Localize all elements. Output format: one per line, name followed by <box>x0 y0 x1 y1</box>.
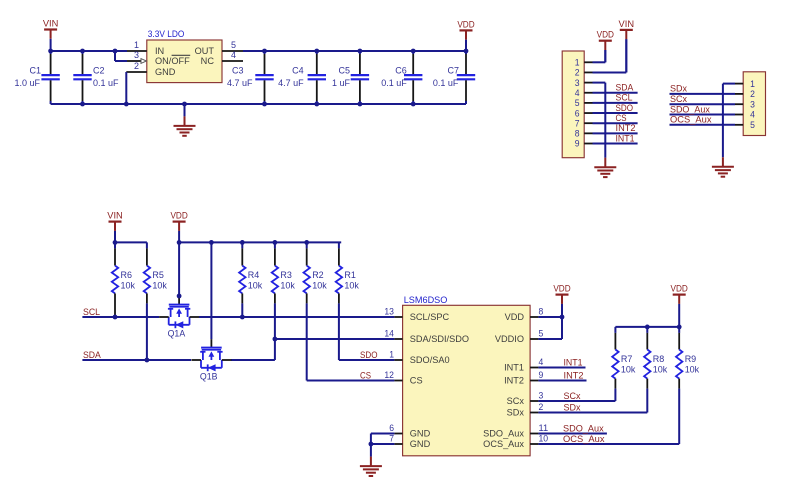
svg-text:SDO/SA0: SDO/SA0 <box>410 355 450 365</box>
svg-text:C3: C3 <box>232 66 244 76</box>
svg-text:CS: CS <box>360 371 371 381</box>
svg-text:5: 5 <box>750 120 755 131</box>
svg-text:C5: C5 <box>339 66 351 76</box>
svg-text:VDD: VDD <box>597 30 615 40</box>
svg-text:SDA/SDI/SDO: SDA/SDI/SDO <box>410 334 469 344</box>
svg-text:INT1: INT1 <box>504 363 524 373</box>
svg-text:R2: R2 <box>312 270 324 280</box>
svg-text:6: 6 <box>389 423 394 434</box>
svg-text:1: 1 <box>389 349 394 360</box>
svg-text:ON/OFF: ON/OFF <box>155 56 190 66</box>
svg-text:Q1A: Q1A <box>168 329 186 339</box>
svg-text:10k: 10k <box>344 281 359 291</box>
svg-text:VDD: VDD <box>553 284 571 294</box>
svg-text:INT2: INT2 <box>504 376 524 386</box>
svg-text:10k: 10k <box>152 281 167 291</box>
svg-text:10k: 10k <box>121 281 136 291</box>
svg-text:R7: R7 <box>621 354 633 364</box>
svg-text:GND: GND <box>410 439 431 449</box>
svg-text:SDO_Aux: SDO_Aux <box>563 424 604 434</box>
svg-text:Q1B: Q1B <box>200 372 218 382</box>
svg-text:SCx: SCx <box>670 94 687 104</box>
svg-text:C2: C2 <box>93 66 105 76</box>
svg-text:VIN: VIN <box>619 19 635 29</box>
svg-text:8: 8 <box>539 306 544 317</box>
svg-text:VDD: VDD <box>457 19 475 29</box>
svg-text:1 uF: 1 uF <box>332 78 350 88</box>
svg-text:R9: R9 <box>685 354 697 364</box>
svg-text:R8: R8 <box>653 354 665 364</box>
svg-text:OCS_Aux: OCS_Aux <box>563 434 605 444</box>
svg-text:VDD: VDD <box>505 312 525 322</box>
svg-text:3.3V LDO: 3.3V LDO <box>148 29 185 40</box>
svg-text:4.7 uF: 4.7 uF <box>278 78 304 88</box>
svg-text:SCx: SCx <box>564 391 581 401</box>
svg-text:C7: C7 <box>448 66 460 76</box>
svg-text:14: 14 <box>384 328 394 339</box>
svg-text:10k: 10k <box>653 365 668 375</box>
svg-text:SDA: SDA <box>83 350 102 360</box>
svg-text:OCS_Aux: OCS_Aux <box>670 115 712 125</box>
svg-text:OUT: OUT <box>195 46 215 56</box>
svg-text:C6: C6 <box>395 66 407 76</box>
svg-text:INT2: INT2 <box>616 123 636 133</box>
svg-text:SCL: SCL <box>616 93 633 103</box>
svg-text:R1: R1 <box>344 270 356 280</box>
svg-text:10k: 10k <box>621 365 636 375</box>
svg-text:7: 7 <box>389 433 394 444</box>
svg-text:3: 3 <box>134 50 139 60</box>
svg-text:SCL/SPC: SCL/SPC <box>410 312 450 322</box>
svg-text:SCL: SCL <box>83 307 100 317</box>
svg-text:R5: R5 <box>152 270 164 280</box>
svg-text:R4: R4 <box>248 270 259 280</box>
svg-text:4.7 uF: 4.7 uF <box>227 78 253 88</box>
svg-text:3: 3 <box>539 390 544 401</box>
svg-text:VDD: VDD <box>170 211 188 221</box>
svg-text:VIN: VIN <box>107 211 123 221</box>
svg-text:10: 10 <box>539 433 549 444</box>
svg-text:INT2: INT2 <box>564 371 584 381</box>
svg-text:INT1: INT1 <box>564 358 583 368</box>
svg-text:1.0 uF: 1.0 uF <box>15 78 41 88</box>
svg-text:SDx: SDx <box>564 403 581 413</box>
svg-text:10k: 10k <box>248 281 263 291</box>
svg-text:10k: 10k <box>312 281 327 291</box>
svg-text:2: 2 <box>134 61 139 71</box>
svg-text:CS: CS <box>616 113 627 123</box>
svg-text:R6: R6 <box>121 270 133 280</box>
svg-text:9: 9 <box>575 139 580 150</box>
svg-text:INT1: INT1 <box>616 133 635 143</box>
svg-text:GND: GND <box>155 67 176 77</box>
svg-text:9: 9 <box>539 370 544 381</box>
svg-text:0.1 uF: 0.1 uF <box>93 78 119 88</box>
svg-text:OCS_Aux: OCS_Aux <box>483 439 524 449</box>
svg-text:12: 12 <box>384 370 394 381</box>
svg-text:2: 2 <box>539 402 544 413</box>
svg-text:0.1 uF: 0.1 uF <box>381 78 407 88</box>
svg-text:VDD: VDD <box>671 284 689 294</box>
svg-text:CS: CS <box>410 376 423 386</box>
svg-text:10k: 10k <box>685 365 700 375</box>
svg-text:SDA: SDA <box>616 83 635 93</box>
svg-text:R3: R3 <box>280 270 292 280</box>
svg-text:1: 1 <box>134 40 139 50</box>
svg-text:LSM6DSO: LSM6DSO <box>404 295 448 306</box>
svg-text:11: 11 <box>539 423 549 434</box>
svg-text:NC: NC <box>201 56 215 66</box>
svg-text:SDO: SDO <box>360 350 378 360</box>
svg-text:SDx: SDx <box>670 84 687 94</box>
svg-text:4: 4 <box>539 357 544 368</box>
svg-text:GND: GND <box>410 429 431 439</box>
svg-text:SDO_Aux: SDO_Aux <box>483 429 524 439</box>
svg-text:5: 5 <box>231 40 236 50</box>
svg-text:SCx: SCx <box>507 396 525 406</box>
svg-text:VIN: VIN <box>43 19 59 29</box>
svg-text:4: 4 <box>231 50 236 60</box>
svg-text:C4: C4 <box>292 66 304 76</box>
svg-text:VDDIO: VDDIO <box>495 334 524 344</box>
svg-text:SDO: SDO <box>616 103 634 113</box>
svg-text:SDO_Aux: SDO_Aux <box>670 104 710 114</box>
svg-text:IN: IN <box>155 46 164 56</box>
svg-text:C1: C1 <box>30 66 42 76</box>
svg-text:5: 5 <box>539 328 544 339</box>
svg-text:10k: 10k <box>280 281 295 291</box>
svg-text:SDx: SDx <box>507 408 525 418</box>
svg-text:0.1 uF: 0.1 uF <box>433 78 459 88</box>
svg-text:13: 13 <box>384 306 394 317</box>
